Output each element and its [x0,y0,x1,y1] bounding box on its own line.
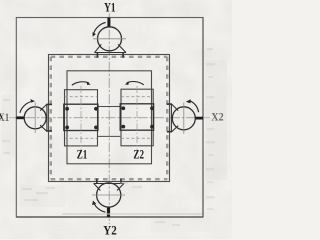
roller X1 rotation arrow [20,99,35,113]
roller X1 mount [40,104,52,132]
worktable rectangle [67,71,152,164]
horizontal center line (X axis) [9,117,210,119]
outer machine housing square [16,18,203,218]
label X1 [0,110,9,124]
roller Y2 rotation arrow [92,201,105,213]
label Y2 [103,223,117,238]
paper background [0,0,232,239]
module Z2 center line [136,86,138,150]
label Z2 [133,148,144,162]
connecting bar between modules (upper) [98,106,120,108]
roller Y2 drive link [107,207,110,217]
roller Y2 mount [94,179,125,191]
roller Y1 rotation arrow [93,22,106,36]
scan ghost line above bottom border [62,213,203,215]
roller X2 rotation arrow [186,99,199,112]
roller X1 circle [24,103,46,134]
module Z1 clamp plate with bolts [64,104,98,130]
label X2 [211,110,223,124]
roller X2 circle [172,103,195,135]
label Y1 [104,0,115,14]
roller X2 mount [167,104,178,133]
module Z2 rotation arrow [125,82,144,85]
roller Y1 drive link [107,18,110,28]
vertical center line (Y axis) [108,14,110,225]
module Z1 rotation arrow [72,82,91,86]
module Z2 slide body [121,89,153,146]
connecting bar between modules (lower) [98,135,120,137]
svg-text:Y1: Y1 [104,0,115,14]
svg-text:Z1: Z1 [77,148,88,162]
frame (dashed guideway rectangle) [49,55,170,182]
roller Y2 circle [92,183,125,207]
roller Y1 mount [94,44,126,57]
svg-text:Y2: Y2 [103,223,117,238]
module Z1 slide body [65,90,98,146]
roller X2 drive link [195,117,203,120]
module Z1 center line [80,86,82,150]
roller Y1 circle [93,27,126,51]
scan smudges [2,48,227,232]
svg-text:Z2: Z2 [133,148,144,162]
label Z1 [77,148,88,162]
module Z2 clamp plate with bolts [120,104,154,130]
roller X1 drive link [16,116,24,119]
